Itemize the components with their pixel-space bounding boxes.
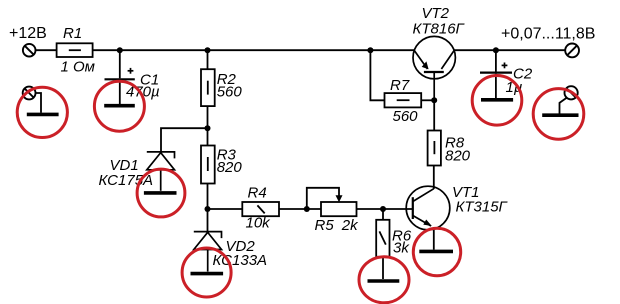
svg-text:820: 820 [217,159,243,176]
wire R7 to VT2 base [421,99,434,101]
highlight circle around ground (VD2) [182,248,231,297]
wire junction to R4 [208,208,243,210]
highlight circle around ground (C1) [94,81,144,131]
svg-text:+0,07...11,8В: +0,07...11,8В [501,26,595,43]
junction R3/R4/VD2 [205,206,211,212]
zener diode VD1 [147,152,175,191]
svg-text:3k: 3k [393,240,410,257]
junction R5/R6/VT1 [380,206,386,212]
highlight circle around ground (R6) [359,257,409,303]
terminal output [565,44,579,58]
ground (R6) [368,279,400,283]
svg-text:R5: R5 [315,217,335,234]
wire terminal to ground (output common) [560,97,568,114]
svg-text:2k: 2k [341,217,359,234]
transistor VT1 [406,186,450,230]
svg-text:VT2: VT2 [422,5,450,22]
emitter arrow VT2 [422,61,429,69]
svg-text:R4: R4 [248,185,267,202]
resistor R8 [428,100,441,165]
terminal +12V input [23,44,36,57]
resistor R7 [385,93,422,107]
svg-text:КТ315Г: КТ315Г [456,199,509,216]
highlight circle around ground (VT1) [413,228,460,275]
zener diode VD2 [194,232,222,272]
wire R3 to bottom node [207,184,209,232]
wire output rail VT2 to terminal [454,49,565,51]
resistor R4 [242,202,279,216]
terminal input common [23,87,36,100]
wire R4 to R5 [279,208,321,210]
junction C2 on rail [493,47,499,53]
svg-text:КС133А: КС133А [213,252,268,269]
svg-text:10k: 10k [246,215,272,232]
svg-text:1 Ом: 1 Ом [61,59,95,76]
highlight circle around ground (C2) [472,76,522,126]
junction C1 on rail [117,47,123,53]
junction R7 branch on rail [367,47,373,53]
potentiometer R5 [321,202,357,216]
ground (output common) [542,113,578,117]
wire junction to VD1 [161,128,208,151]
ground (C2) [481,98,513,102]
svg-text:+12В: +12В [9,25,47,42]
wire R5 to VT1 base [357,208,413,210]
resistor R2 [201,50,215,106]
resistor R3 [201,146,215,184]
wire potentiometer wiper loop [307,188,339,209]
svg-text:560: 560 [217,84,243,101]
svg-text:560: 560 [393,108,419,125]
ground (VD1) [144,191,177,195]
wire terminal to R1 [35,49,56,51]
junction R2 on rail [205,47,211,53]
svg-text:R7: R7 [390,77,410,94]
wiper arrow into R5 [336,195,343,202]
svg-text:КТ816Г: КТ816Г [413,20,466,37]
ground (VT1) [419,250,453,254]
resistor R1 [57,43,93,57]
wire terminal to ground (input common) [35,93,41,113]
junction R7/R8/VT2 base [431,97,437,103]
highlight circle around ground (input common) [17,87,67,137]
wire +12V rail R1 to VT2 [93,49,415,51]
wire R2 to R3 [207,106,209,145]
terminal output common [565,86,578,99]
ground (input common) [27,113,59,117]
ground (C1) [104,104,135,108]
resistor R6 [376,209,389,279]
highlight circle around ground (output common) [533,89,584,140]
transistor VT2 [413,36,455,100]
svg-text:R1: R1 [63,25,82,42]
emitter arrow VT1 [423,220,432,227]
capacitor C2 [480,50,512,98]
capacitor C1 [105,50,135,104]
svg-text:820: 820 [445,148,471,165]
wire rail to R7 [370,50,384,100]
highlight circle around ground (VD1) [137,169,185,217]
wire VT1 emitter to ground [433,227,435,250]
junction R2/R3/VD1 [205,125,211,131]
ground (VD2) [191,272,224,276]
junction R4/R5/wiper [304,206,310,212]
wire VT1 collector to R8 [433,166,435,190]
